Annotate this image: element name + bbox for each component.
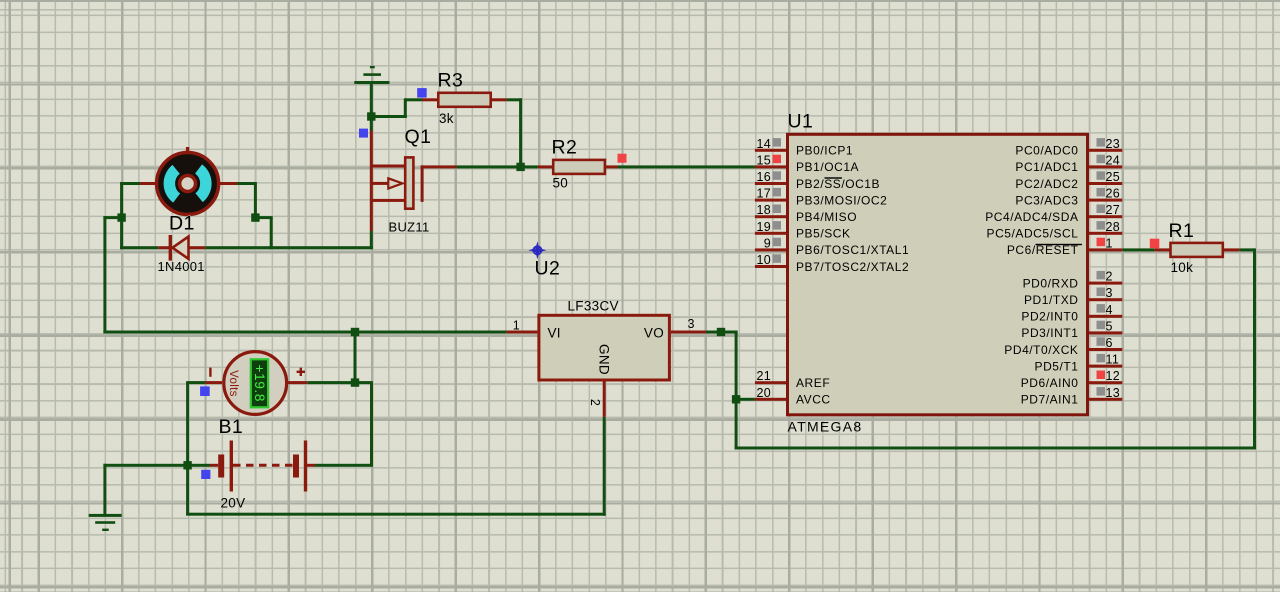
wire VO pin to corner — [706, 331, 738, 334]
svg-text:20V: 20V — [221, 496, 246, 511]
battery B1 dashed link — [233, 464, 293, 467]
pin 17 PB3/MOSI/OC2 — [755, 187, 887, 208]
svg-text:PD2/INT0: PD2/INT0 — [1021, 310, 1078, 324]
wire bottom rail to regulator GND — [186, 513, 606, 516]
pin number 3 (VO) — [688, 317, 695, 331]
pin 2 stub regulator GND — [603, 382, 606, 417]
svg-text:PB1/OC1A: PB1/OC1A — [796, 160, 859, 174]
svg-text:4: 4 — [1106, 303, 1113, 317]
pin stub battery left — [210, 464, 218, 467]
svg-text:13: 13 — [1106, 386, 1121, 400]
svg-text:23: 23 — [1106, 137, 1121, 151]
battery B1 right plate long — [304, 441, 307, 492]
blue origin square near voltmeter — [200, 386, 210, 396]
pin stub R3 left — [423, 98, 439, 101]
blue origin square near battery — [201, 470, 210, 479]
pin 25 PC2/ADC2 — [1015, 170, 1122, 191]
wire diode anode lead — [120, 246, 158, 249]
pin 12 PD6/AIN0 — [1021, 369, 1123, 390]
transistor Q1 body line — [370, 131, 373, 232]
svg-text:PC3/ADC3: PC3/ADC3 — [1015, 193, 1078, 207]
svg-text:9: 9 — [764, 236, 771, 250]
svg-text:PB3/MOSI/OC2: PB3/MOSI/OC2 — [796, 193, 887, 207]
svg-text:17: 17 — [756, 187, 771, 201]
pin stub R2 left — [538, 165, 553, 168]
svg-text:R3: R3 — [438, 70, 464, 92]
svg-text:26: 26 — [1106, 187, 1121, 201]
svg-text:10k: 10k — [1171, 260, 1194, 275]
svg-text:15: 15 — [756, 153, 771, 167]
label LF33CV — [568, 299, 619, 314]
wire voltmeter+ drop to battery — [370, 383, 373, 467]
svg-text:VO: VO — [644, 326, 664, 341]
pin 9 PB6/TOSC1/XTAL1 — [755, 236, 909, 257]
svg-text:PB4/MISO: PB4/MISO — [796, 210, 857, 224]
svg-text:12: 12 — [1106, 369, 1121, 383]
pin 3 PD1/TXD — [1024, 286, 1122, 307]
pin 26 PC3/ADC3 — [1015, 187, 1122, 208]
battery B1 left plate long — [230, 441, 233, 492]
pin 4 PD2/INT0 — [1021, 303, 1122, 324]
svg-text:6: 6 — [1106, 336, 1113, 350]
svg-text:PD4/T0/XCK: PD4/T0/XCK — [1004, 343, 1078, 357]
svg-text:25: 25 — [1106, 170, 1121, 184]
svg-text:PB7/TOSC2/XTAL2: PB7/TOSC2/XTAL2 — [796, 260, 909, 274]
svg-text:18: 18 — [756, 203, 771, 217]
wire voltmeter+ row — [307, 381, 373, 384]
wire battery+ rail horizontal — [103, 331, 506, 334]
svg-text:R2: R2 — [552, 137, 578, 159]
label U1 — [788, 111, 814, 133]
svg-text:LF33CV: LF33CV — [568, 299, 619, 314]
transistor Q1 arrow — [388, 178, 402, 188]
wire R3 right drop — [519, 98, 522, 168]
wire bottom-right rail — [735, 447, 1256, 450]
node VO wire dot — [717, 328, 725, 336]
pin stub voltmeter minus — [205, 381, 222, 384]
wire drain to junction — [456, 165, 520, 168]
wire motor right drop — [254, 182, 257, 218]
svg-text:21: 21 — [756, 369, 771, 383]
svg-text:1: 1 — [1106, 236, 1113, 250]
wire junction down to diode row — [120, 218, 123, 250]
svg-text:28: 28 — [1106, 220, 1121, 234]
wire ground stem to gate node — [370, 83, 373, 117]
wire motor left drop — [120, 182, 123, 218]
wire motor right terminal — [218, 182, 255, 185]
node voltmeter+ junction — [351, 378, 359, 386]
wire R3 right (horizontal) — [507, 98, 522, 101]
svg-text:VI: VI — [548, 326, 561, 341]
wire R1 right corner — [1239, 248, 1254, 251]
wire voltmeter- corner — [186, 381, 205, 384]
node motor left junction — [117, 213, 125, 221]
regulator label VI — [548, 326, 561, 341]
wire junction down to bottom rail — [186, 465, 189, 514]
svg-text:PC2/ADC2: PC2/ADC2 — [1015, 177, 1078, 191]
pin 14 PB0/ICP1 — [755, 137, 853, 158]
svg-text:BUZ11: BUZ11 — [389, 220, 430, 235]
svg-text:14: 14 — [756, 137, 771, 151]
pin stub R2 right — [605, 165, 618, 168]
pin 28 PC5/ADC5/SCL — [987, 220, 1123, 241]
wire right riser to R1 net — [1253, 248, 1256, 448]
svg-text:U1: U1 — [788, 111, 814, 133]
transistor Q1 gate line — [421, 165, 424, 202]
ground (bottom left) — [89, 514, 122, 531]
blue origin square near Q1 gate — [359, 129, 368, 138]
svg-text:3: 3 — [1106, 286, 1113, 300]
svg-text:B1: B1 — [219, 416, 244, 438]
regulator U2 body — [539, 315, 670, 380]
wire branch down to voltmeter row — [354, 332, 357, 383]
pin 10 PB7/TOSC2/XTAL2 — [755, 253, 909, 274]
wire junction right — [255, 216, 272, 219]
value 10k — [1171, 260, 1194, 275]
svg-text:19: 19 — [756, 220, 771, 234]
svg-text:Q1: Q1 — [405, 126, 432, 148]
svg-text:3k: 3k — [439, 111, 454, 126]
pin 3 stub regulator VO — [671, 331, 706, 334]
pin stub battery right — [307, 464, 315, 467]
pin 16 PB2/SS/OC1B — [755, 170, 880, 191]
voltmeter reading +19.8 — [252, 364, 267, 401]
node battery left junction — [183, 461, 191, 469]
svg-text:2: 2 — [1106, 270, 1113, 284]
pin 19 PB5/SCK — [755, 220, 851, 241]
voltmeter minus mark — [209, 368, 211, 377]
svg-text:R1: R1 — [1169, 220, 1195, 242]
voltmeter body — [224, 352, 287, 415]
node rail/voltmeter branch — [351, 328, 359, 336]
svg-text:+19.8: +19.8 — [252, 364, 267, 401]
wire R1 left to U1 pin 1 — [1122, 248, 1154, 251]
svg-text:PB5/SCK: PB5/SCK — [796, 227, 851, 241]
label B1 — [219, 416, 244, 438]
svg-text:PB0/ICP1: PB0/ICP1 — [796, 144, 853, 158]
resistor R2 body — [553, 160, 605, 174]
wire drop to diode row — [270, 218, 273, 250]
svg-text:1N4001: 1N4001 — [158, 259, 205, 274]
overbar RESET (pin 1 label) — [1036, 244, 1083, 245]
wire junction to MOSFET gate — [370, 117, 373, 132]
svg-text:PD3/INT1: PD3/INT1 — [1021, 326, 1078, 340]
svg-text:PB6/TOSC1/XTAL1: PB6/TOSC1/XTAL1 — [796, 243, 909, 257]
pin 11 PD5/T1 — [1035, 353, 1123, 374]
svg-text:PB2/SS/OC1B: PB2/SS/OC1B — [796, 177, 880, 191]
wire junction to R2 left — [521, 165, 538, 168]
svg-text:ATMEGA8: ATMEGA8 — [788, 419, 863, 435]
regulator label VO — [644, 326, 664, 341]
ground (top, near R3) — [354, 66, 389, 84]
label R2 — [552, 137, 578, 159]
value 1N4001 — [158, 259, 205, 274]
battery B1 left plate short — [218, 455, 224, 478]
resistor R3 body — [438, 93, 490, 107]
label Q1 — [405, 126, 432, 148]
svg-text:16: 16 — [756, 170, 771, 184]
svg-text:10: 10 — [756, 253, 771, 267]
voltmeter Volts label — [227, 370, 239, 396]
svg-text:20: 20 — [756, 386, 771, 400]
label U2 — [535, 258, 561, 280]
transistor Q1 drain lead — [421, 165, 457, 168]
red terminal square at R1 left — [1150, 239, 1160, 249]
transistor Q1 source stub — [371, 199, 405, 202]
svg-text:3: 3 — [688, 317, 695, 331]
regulator label GND — [597, 344, 612, 375]
svg-text:PC1/ADC1: PC1/ADC1 — [1015, 160, 1078, 174]
svg-text:24: 24 — [1106, 153, 1121, 167]
resistor R1 body — [1171, 243, 1223, 257]
pin 5 PD3/INT1 — [1021, 319, 1122, 340]
label D1 — [169, 213, 195, 235]
svg-text:AVCC: AVCC — [796, 393, 831, 407]
pin stub diode cathode — [189, 246, 206, 249]
wire R3 left riser — [404, 98, 407, 118]
pin stub diode anode — [158, 246, 169, 249]
svg-text:27: 27 — [1106, 203, 1121, 217]
wire R3 left (horizontal) — [405, 98, 422, 101]
wire MOSFET source down — [370, 231, 373, 249]
transistor Q1 drain stub — [371, 165, 405, 168]
svg-text:GND: GND — [597, 344, 612, 375]
node motor right junction — [251, 213, 259, 221]
svg-text:PC5/ADC5/SCL: PC5/ADC5/SCL — [987, 227, 1079, 241]
value 50 — [553, 176, 569, 191]
node drain/R2/R3 junction — [516, 163, 524, 171]
motor D1 body — [157, 153, 219, 215]
diode D1 1N4001 — [169, 235, 189, 261]
node AVCC branch junction — [732, 395, 740, 403]
wire battery right lead — [315, 464, 372, 467]
pin stub R1 right — [1223, 248, 1240, 251]
svg-text:PD7/AIN1: PD7/AIN1 — [1021, 393, 1079, 407]
pin 1 PC6/RESET — [1007, 236, 1122, 257]
motor brush arc left — [169, 169, 176, 198]
svg-text:50: 50 — [553, 176, 569, 191]
pin stub voltmeter plus — [288, 381, 307, 384]
pin 21 AREF — [755, 369, 830, 390]
U2 origin crosshair — [528, 241, 546, 259]
motor top tick — [186, 147, 189, 152]
svg-text:U2: U2 — [535, 258, 561, 280]
wire R2 right to U1 pin 15 — [618, 165, 755, 168]
pin 18 PB4/MISO — [755, 203, 857, 224]
wire ground branch drop — [103, 464, 106, 516]
svg-text:PC4/ADC4/SDA: PC4/ADC4/SDA — [985, 210, 1078, 224]
svg-text:D1: D1 — [169, 213, 195, 235]
wire junction to left rail — [103, 216, 121, 219]
value 20V — [221, 496, 246, 511]
svg-text:AREF: AREF — [796, 376, 830, 390]
svg-text:PD0/RXD: PD0/RXD — [1023, 276, 1079, 290]
pin 1 stub regulator VI — [507, 331, 538, 334]
battery B1 right plate short — [293, 455, 299, 478]
transistor Q1 gate plate — [405, 157, 413, 208]
voltmeter plus mark — [297, 368, 305, 376]
ic U1 ATMEGA8 body — [788, 134, 1088, 415]
pin 13 PD7/AIN1 — [1021, 386, 1123, 407]
value 3k — [439, 111, 454, 126]
wire VO corner down — [735, 331, 738, 450]
svg-text:PD5/T1: PD5/T1 — [1035, 359, 1079, 373]
wire voltmeter- drop — [186, 383, 189, 466]
pin 2 PD0/RXD — [1023, 270, 1123, 291]
wire motor left terminal — [120, 182, 157, 185]
motor brush arc right — [199, 169, 206, 198]
wire left rail vertical — [103, 216, 106, 333]
value BUZ11 — [389, 220, 430, 235]
pin number 2 (GND) — [588, 399, 602, 406]
svg-text:2: 2 — [588, 399, 602, 406]
motor shaft — [180, 176, 196, 192]
blue origin square near R3 left — [417, 88, 427, 98]
svg-text:PD1/TXD: PD1/TXD — [1024, 293, 1079, 307]
pin stub R3 right — [491, 98, 507, 101]
wire AVCC branch — [736, 398, 755, 401]
pin 27 PC4/ADC4/SDA — [985, 203, 1122, 224]
label R3 — [438, 70, 464, 92]
svg-text:1: 1 — [513, 319, 520, 333]
value ATMEGA8 — [788, 419, 863, 435]
pin 23 PC0/ADC0 — [1015, 137, 1122, 158]
svg-text:PC6/RESET: PC6/RESET — [1007, 243, 1079, 257]
pin 20 AVCC — [755, 386, 831, 407]
wire regulator GND riser — [603, 417, 606, 516]
pin number 1 (VI) — [513, 319, 520, 333]
node gate/R3 junction — [367, 112, 375, 120]
svg-text:5: 5 — [1106, 319, 1113, 333]
pin 24 PC1/ADC1 — [1015, 153, 1122, 174]
svg-text:PC0/ADC0: PC0/ADC0 — [1015, 144, 1078, 158]
wire junction to R3 left (horizontal) — [371, 115, 407, 118]
svg-text:11: 11 — [1106, 353, 1120, 367]
wire junction to ground branch — [103, 464, 187, 467]
svg-text:Volts: Volts — [227, 370, 239, 396]
pin 15 PB1/OC1A — [755, 153, 859, 174]
pin stub R1 left — [1154, 248, 1170, 251]
pin 6 PD4/T0/XCK — [1004, 336, 1122, 357]
label R1 — [1169, 220, 1195, 242]
wire battery left lead — [188, 464, 210, 467]
transistor Q1 arrow stub — [371, 182, 388, 185]
voltmeter LCD — [251, 359, 268, 407]
svg-text:PD6/AIN0: PD6/AIN0 — [1021, 376, 1079, 390]
wire diode cathode row to MOSFET source — [205, 246, 373, 249]
overbar SS (pin 16 label) — [825, 177, 843, 178]
red terminal square at R2 right — [618, 154, 627, 163]
